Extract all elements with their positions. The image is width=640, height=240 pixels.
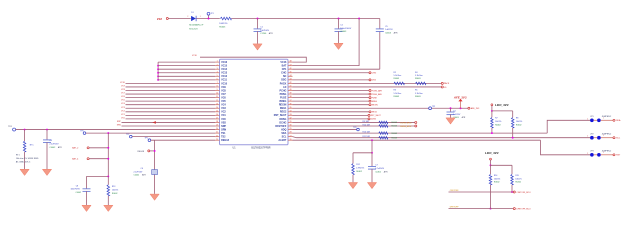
wire VC16..VC11 rows to U1 <box>158 62 215 80</box>
resistor R1 <box>219 17 231 28</box>
svg-text:2: 2 <box>587 118 588 120</box>
test point TP5 <box>80 131 85 135</box>
wire SDA net to jumper JP1 <box>293 120 591 133</box>
node REGIN net label <box>293 104 379 107</box>
svg-text:VC2: VC2 <box>221 111 226 114</box>
wires VC10..VC0 with net labels <box>120 82 215 120</box>
wire filter rail <box>87 175 110 177</box>
svg-text:VC4: VC4 <box>221 104 226 107</box>
svg-text:VC16: VC16 <box>192 55 197 57</box>
svg-text:R15: R15 <box>515 175 518 177</box>
svg-text:C8: C8 <box>76 186 78 188</box>
U1 pin names and pin numbers <box>216 61 291 142</box>
node BREG net label <box>293 100 378 103</box>
svg-text:DDSG: DDSG <box>371 119 377 121</box>
test point TP2 <box>429 106 435 110</box>
svg-text:R14: R14 <box>494 175 497 177</box>
svg-text:REG1: REG1 <box>280 107 287 110</box>
svg-text:NC: NC <box>283 75 287 78</box>
svg-text:DDSG: DDSG <box>279 118 286 121</box>
svg-text:REG18: REG18 <box>221 139 230 142</box>
wire DCHG_MCU net <box>293 121 417 123</box>
svg-text:R0402: R0402 <box>515 182 521 184</box>
node SCL net label <box>613 137 621 140</box>
svg-text:ATR: ATR <box>384 171 388 174</box>
wire REG1 to AFE_3V3 <box>293 107 468 109</box>
svg-text:PCHG: PCHG <box>279 89 286 92</box>
ground below RT1 <box>20 169 29 175</box>
svg-text:R0402: R0402 <box>112 193 118 195</box>
resistor R8 <box>511 111 522 139</box>
svg-text:R0402: R0402 <box>516 125 522 127</box>
svg-text:VC6: VC6 <box>221 96 226 99</box>
svg-text:CFETOFF_MCU: CFETOFF_MCU <box>517 192 532 194</box>
svg-text:JP3: JP3 <box>590 150 593 152</box>
svg-text:VC0: VC0 <box>221 118 226 121</box>
svg-text:LDO_3V3: LDO_3V3 <box>495 103 509 107</box>
svg-text:R0603: R0603 <box>415 78 421 80</box>
svg-text:R0603: R0603 <box>391 122 397 124</box>
svg-text:TP5: TP5 <box>80 131 83 133</box>
svg-text:SCL: SCL <box>282 136 287 139</box>
svg-text:C0402: C0402 <box>375 172 381 174</box>
svg-text:REG2: REG2 <box>372 112 377 114</box>
svg-text:1: 1 <box>603 135 604 137</box>
node REG2 net label <box>293 111 377 114</box>
resistor R2 <box>394 72 405 85</box>
svg-text:R8: R8 <box>516 118 518 120</box>
svg-text:C4: C4 <box>453 111 455 113</box>
svg-text:ATR: ATR <box>142 174 146 177</box>
wire V10 rail to diode <box>168 18 190 20</box>
node FUSE net label <box>293 97 378 100</box>
node DCHG_MCU label <box>400 122 412 124</box>
svg-text:10k ohm 1% 3435K SMD: 10k ohm 1% 3435K SMD <box>16 158 39 160</box>
svg-text:DDSG_MCU: DDSG_MCU <box>400 126 411 128</box>
resistor R13 <box>107 176 118 205</box>
svg-text:DCHG: DCHG <box>279 121 286 124</box>
resistor R11 <box>363 136 397 139</box>
svg-text:1uF/100V: 1uF/100V <box>260 30 269 32</box>
svg-text:DSG: DSG <box>281 79 286 82</box>
node BAT_4 net label <box>72 158 109 161</box>
svg-text:DCHG_MCU: DCHG_MCU <box>400 122 412 124</box>
svg-text:R5: R5 <box>415 90 417 92</box>
svg-text:PACK: PACK <box>444 82 450 85</box>
svg-text:R10 10R: R10 10R <box>363 124 371 126</box>
svg-text:VC12: VC12 <box>221 75 228 78</box>
svg-text:1uF/25V: 1uF/25V <box>453 114 461 116</box>
node RST_SHUT net label <box>293 114 382 117</box>
svg-text:ATR: ATR <box>58 146 62 149</box>
svg-text:PCHG_AFE: PCHG_AFE <box>372 89 383 92</box>
resistor R9 <box>363 121 397 124</box>
svg-text:AFE_3V3: AFE_3V3 <box>453 95 467 99</box>
node AFE_3V3 net label <box>468 107 480 110</box>
svg-text:2.2uF/16V: 2.2uF/16V <box>49 144 59 146</box>
svg-text:VC16: VC16 <box>221 61 228 64</box>
svg-text:BQ7695207PFBR: BQ7695207PFBR <box>251 147 270 150</box>
node DDSG net label <box>293 118 377 121</box>
wire TS2 net from TP5 to U1 <box>86 132 215 134</box>
svg-text:CHG: CHG <box>372 73 377 75</box>
wire RC filter tap <box>353 139 373 154</box>
svg-text:REGIN: REGIN <box>372 105 379 107</box>
svg-text:V10: V10 <box>157 17 163 21</box>
svg-text:R0603: R0603 <box>391 133 397 135</box>
svg-text:10k/1%: 10k/1% <box>112 190 119 192</box>
svg-text:100R/1%: 100R/1% <box>219 23 227 25</box>
node CHG net label <box>293 72 377 75</box>
svg-text:5.1kOhm: 5.1kOhm <box>415 75 423 77</box>
svg-text:JP2: JP2 <box>590 133 593 135</box>
svg-text:BAT_2: BAT_2 <box>72 147 79 150</box>
ground below R12 <box>348 183 357 189</box>
svg-text:R0402: R0402 <box>356 171 362 173</box>
svg-text:VC4: VC4 <box>121 103 125 105</box>
thermistor RT1 <box>16 129 39 170</box>
wire CFETOFF net <box>449 190 532 194</box>
ground below C4 <box>446 118 455 124</box>
svg-text:TP1: TP1 <box>211 13 214 15</box>
svg-text:5.1kOhm: 5.1kOhm <box>415 93 423 95</box>
capacitor C7 <box>368 153 388 183</box>
capacitor C3 <box>43 129 62 170</box>
svg-text:REG18: REG18 <box>138 151 145 153</box>
svg-text:BREG: BREG <box>372 101 378 103</box>
svg-text:AFE_3V3: AFE_3V3 <box>471 107 480 110</box>
svg-text:VC11: VC11 <box>221 79 228 82</box>
resistor R4 <box>415 72 426 85</box>
svg-text:VC10: VC10 <box>120 82 125 84</box>
svg-text:VC5: VC5 <box>121 100 125 102</box>
svg-text:CFETOFF: CFETOFF <box>450 190 460 192</box>
svg-text:R13: R13 <box>112 186 115 188</box>
ground below C8 <box>82 205 91 211</box>
wire SRP with net label <box>117 121 215 123</box>
test point TP1 <box>207 12 214 19</box>
jumper JP2 <box>587 133 613 139</box>
resistor R7 <box>491 111 502 134</box>
svg-text:10k/1%: 10k/1% <box>495 121 502 123</box>
svg-text:R16 10R: R16 10R <box>363 131 371 133</box>
svg-text:5.1kOhm: 5.1kOhm <box>394 75 402 77</box>
svg-text:R12: R12 <box>356 164 359 166</box>
svg-text:DFETOFF_MCU: DFETOFF_MCU <box>517 208 532 210</box>
svg-text:FUSE: FUSE <box>372 97 378 99</box>
svg-text:VC3: VC3 <box>121 107 125 109</box>
test point TP7 <box>126 134 132 138</box>
U1 reference designator text <box>233 147 271 150</box>
svg-text:VC16: VC16 <box>280 61 287 64</box>
svg-text:R0603: R0603 <box>415 96 421 98</box>
svg-text:RST: RST <box>616 155 621 157</box>
svg-text:VC9: VC9 <box>121 85 125 87</box>
wire DFETOFF net <box>449 207 532 211</box>
svg-text:C7: C7 <box>375 165 377 167</box>
wire R1 to rail junctions <box>232 18 380 20</box>
ground below R13 <box>104 205 113 211</box>
svg-text:BAT: BAT <box>282 65 287 68</box>
net V10 label <box>157 17 169 21</box>
svg-text:AT_SMD_3V1.5: AT_SMD_3V1.5 <box>16 161 31 164</box>
svg-text:C0402: C0402 <box>49 147 56 149</box>
svg-text:ATR: ATR <box>269 32 273 35</box>
svg-text:VC2: VC2 <box>121 110 125 112</box>
svg-text:SRP: SRP <box>221 125 226 128</box>
capacitor C5 <box>376 26 398 35</box>
svg-text:VC7: VC7 <box>121 93 125 95</box>
svg-text:100nF/100V: 100nF/100V <box>340 28 352 30</box>
wire HDQ net to TP3 <box>293 129 360 131</box>
svg-text:10k/1%: 10k/1% <box>494 178 501 180</box>
svg-text:CHG: CHG <box>281 72 286 75</box>
svg-text:1uF/25V: 1uF/25V <box>385 29 393 31</box>
wire LDO_3V3 rail lower <box>491 164 513 166</box>
svg-text:SRN: SRN <box>221 128 226 131</box>
wire REG18 vertical to C6 <box>154 140 156 194</box>
svg-text:VSS: VSS <box>221 121 226 124</box>
wire BAT sense vertical <box>107 133 109 176</box>
svg-text:PDSG: PDSG <box>280 93 287 96</box>
svg-text:C6: C6 <box>141 168 143 170</box>
svg-text:DFETOFF: DFETOFF <box>275 125 287 128</box>
svg-text:LDO_3V3: LDO_3V3 <box>485 151 499 155</box>
wire diode to R1 <box>196 18 220 20</box>
svg-text:CP1: CP1 <box>282 68 287 71</box>
svg-text:VC5: VC5 <box>221 100 226 103</box>
svg-text:JP1: JP1 <box>590 116 593 118</box>
svg-text:VC3: VC3 <box>221 107 226 110</box>
svg-text:R0603: R0603 <box>219 26 226 28</box>
resistor R12 <box>352 153 365 183</box>
svg-text:TP7: TP7 <box>126 134 129 136</box>
node DSG net label <box>293 79 377 82</box>
svg-text:C1206: C1206 <box>260 33 267 35</box>
svg-text:REGIN: REGIN <box>279 104 287 107</box>
svg-text:VC13: VC13 <box>221 72 228 75</box>
svg-text:REG2: REG2 <box>280 111 287 114</box>
svg-text:R0603: R0603 <box>394 96 400 98</box>
svg-text:R4: R4 <box>415 72 417 74</box>
svg-text:5.1kOhm: 5.1kOhm <box>394 93 402 95</box>
svg-text:VC1: VC1 <box>221 114 226 117</box>
svg-text:SDA: SDA <box>281 132 286 135</box>
node DDSG_MCU label <box>400 126 411 128</box>
svg-text:FUSE: FUSE <box>280 96 287 99</box>
op-amp U1 battery monitor IC BQ7695207PFBR body <box>220 59 289 145</box>
test point TP6 <box>145 137 151 141</box>
wire TS3 net to U1 <box>132 136 215 138</box>
svg-text:PACK: PACK <box>280 82 287 85</box>
svg-text:ALERT: ALERT <box>278 139 287 142</box>
wire LD net <box>293 86 448 89</box>
svg-text:1: 1 <box>200 16 201 18</box>
node REG18 net label <box>138 150 156 153</box>
capacitor C4 <box>447 107 466 119</box>
svg-text:R3: R3 <box>394 90 396 92</box>
svg-text:VC14: VC14 <box>221 68 228 71</box>
svg-text:4.7uF/50V: 4.7uF/50V <box>375 168 384 170</box>
wire SCL net to jumper JP2 <box>293 137 591 138</box>
svg-text:R0402: R0402 <box>494 182 500 184</box>
wire LDO_3V3 rail upper <box>492 110 513 112</box>
svg-text:C0402: C0402 <box>134 175 140 177</box>
svg-text:C0603: C0603 <box>340 31 347 33</box>
svg-text:R0603: R0603 <box>391 137 397 139</box>
U1 pin stubs left and right <box>215 62 293 140</box>
wire BAT to rail <box>293 18 361 66</box>
resistor R10 <box>363 124 397 127</box>
svg-text:ATR: ATR <box>394 32 398 35</box>
resistor R14 <box>489 165 500 209</box>
node PCHG_AFE net label <box>293 89 383 92</box>
jumper JP1 <box>587 116 613 122</box>
svg-text:D1: D1 <box>191 12 193 14</box>
svg-text:100nF/25V: 100nF/25V <box>71 189 81 191</box>
svg-text:1: 1 <box>603 117 604 119</box>
svg-text:TS2: TS2 <box>221 136 226 139</box>
svg-text:R11 10R: R11 10R <box>363 136 371 138</box>
wire CP1 to rail via C5 <box>293 19 380 70</box>
ground below C2 <box>334 43 343 49</box>
svg-text:HDQ: HDQ <box>281 128 286 131</box>
ground below C3 <box>42 169 51 175</box>
svg-text:4.99k/1%: 4.99k/1% <box>356 168 364 170</box>
resistor R3 label <box>394 90 402 98</box>
power flag AFE_3V3 <box>453 95 467 109</box>
ground below C7 <box>367 183 376 189</box>
capacitor C2 <box>335 18 352 44</box>
capacitor C8 <box>71 176 91 205</box>
power flag LDO_3V3 upper <box>491 103 509 112</box>
ground below C6 <box>150 194 159 200</box>
svg-text:1: 1 <box>603 152 604 154</box>
node SDA net label <box>613 119 621 122</box>
svg-text:SD103AWS-7-F: SD103AWS-7-F <box>189 24 204 27</box>
capacitor C6 <box>134 168 158 177</box>
resistor R16 <box>363 131 397 134</box>
jumper JP3 <box>587 150 613 156</box>
wire ALERT net to jumper JP3 <box>293 140 591 155</box>
svg-text:C0603: C0603 <box>385 33 392 35</box>
svg-text:VC9: VC9 <box>221 86 226 89</box>
svg-text:VC1: VC1 <box>121 114 125 116</box>
svg-text:TS1: TS1 <box>221 132 226 135</box>
svg-text:VC8: VC8 <box>121 89 125 91</box>
svg-text:BREG: BREG <box>279 100 286 103</box>
svg-text:RST_SHUT: RST_SHUT <box>274 114 287 117</box>
svg-text:R0603: R0603 <box>391 126 397 128</box>
node PDSG_AFE net label <box>293 93 383 96</box>
svg-text:SDA: SDA <box>616 119 621 122</box>
svg-text:DFETOFF: DFETOFF <box>450 207 460 209</box>
svg-text:2: 2 <box>187 16 188 18</box>
wire VC16 top loop <box>192 55 306 62</box>
node RST net label <box>613 154 621 157</box>
wire TS1 net from TP4 to U1 <box>16 129 215 131</box>
svg-text:TP2: TP2 <box>432 106 435 108</box>
resistor R5 label <box>415 90 423 98</box>
test point TP4 <box>8 126 16 131</box>
svg-text:TP3: TP3 <box>353 127 356 129</box>
svg-text:SRN: SRN <box>117 125 122 127</box>
svg-text:PDSG_AFE: PDSG_AFE <box>372 93 383 96</box>
svg-text:2.2uF/16V: 2.2uF/16V <box>134 171 143 173</box>
ground below C1 <box>253 44 262 50</box>
svg-text:R0603: R0603 <box>394 78 400 80</box>
wire DDSG_MCU net <box>293 125 417 127</box>
node VC bus vertical <box>157 62 159 81</box>
svg-text:TP6: TP6 <box>145 137 148 139</box>
svg-text:R0402: R0402 <box>495 125 501 127</box>
wire REG18 net to U1 <box>151 139 215 141</box>
capacitor C1 <box>254 18 274 44</box>
svg-text:C0402: C0402 <box>76 192 82 194</box>
wire SRN with net label and arrow <box>117 121 215 126</box>
svg-text:RST_SHUT: RST_SHUT <box>371 115 382 117</box>
svg-text:2: 2 <box>587 153 588 155</box>
svg-text:R7: R7 <box>495 118 497 120</box>
svg-text:DSG: DSG <box>372 80 377 82</box>
svg-text:SOD-323: SOD-323 <box>189 29 198 31</box>
svg-text:LD: LD <box>283 86 286 89</box>
svg-text:VC7: VC7 <box>221 93 226 96</box>
svg-text:10k/1%: 10k/1% <box>515 178 522 180</box>
node BAT_2 net label <box>72 147 109 150</box>
svg-text:VC8: VC8 <box>221 89 226 92</box>
svg-text:VC10: VC10 <box>221 82 228 85</box>
power flag LDO_3V3 lower <box>485 151 499 166</box>
svg-text:VC15: VC15 <box>221 65 228 68</box>
wire PACK net with series resistors <box>293 82 450 85</box>
test point TP3 <box>353 127 359 131</box>
diode D1 <box>187 12 204 31</box>
svg-text:VC6: VC6 <box>121 96 125 98</box>
svg-text:2: 2 <box>587 136 588 138</box>
svg-text:BAT_4: BAT_4 <box>72 158 79 161</box>
svg-text:NTC: NTC <box>30 145 35 147</box>
svg-text:VC0: VC0 <box>121 117 125 119</box>
svg-text:10k/1%: 10k/1% <box>516 121 523 123</box>
svg-text:R9 10R: R9 10R <box>363 121 370 123</box>
resistor R15 <box>511 165 522 193</box>
svg-text:ATR: ATR <box>462 116 466 119</box>
svg-text:R2: R2 <box>394 72 396 74</box>
